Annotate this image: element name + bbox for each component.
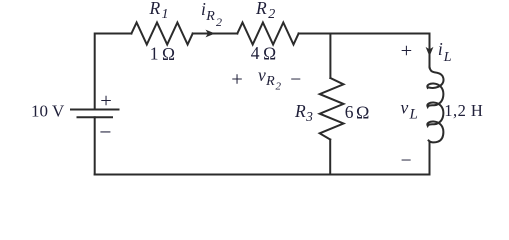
wire top-left from source to R1 [95, 34, 132, 109]
svg-text:Ω: Ω [162, 44, 175, 64]
wire R1 to R2 with current arrow [193, 33, 238, 35]
wire R3 branch top [329, 34, 331, 79]
svg-text:+: + [401, 40, 413, 62]
inductor L1 coil [427, 67, 443, 143]
resistor R3 [320, 78, 344, 140]
wire right branch top [429, 34, 431, 68]
svg-text:R1: R1 [149, 0, 169, 22]
svg-text:Ω: Ω [356, 102, 369, 122]
battery V1 bottom plate [78, 116, 113, 118]
wire bottom [95, 174, 430, 176]
svg-text:−: − [401, 150, 412, 171]
svg-text:10 V: 10 V [31, 102, 65, 121]
svg-text:R2: R2 [255, 0, 275, 22]
svg-text:1,2 H: 1,2 H [444, 101, 483, 120]
svg-text:iR2: iR2 [201, 0, 222, 29]
current arrowhead i_L [426, 47, 434, 57]
current arrowhead i_R2 [206, 30, 216, 38]
wire R3 branch bottom [329, 140, 331, 175]
wire R2 to top-right corner [299, 33, 430, 35]
battery V1 top plate [71, 109, 119, 111]
svg-text:−: − [290, 70, 301, 91]
svg-text:4: 4 [251, 43, 260, 63]
svg-text:−: − [99, 120, 111, 144]
wire right branch bottom [429, 142, 431, 175]
svg-text:vR2: vR2 [258, 65, 281, 93]
resistor R2 [237, 23, 298, 45]
svg-text:R3: R3 [294, 101, 313, 124]
svg-text:+: + [100, 90, 112, 112]
svg-text:Ω: Ω [263, 43, 276, 63]
svg-text:6: 6 [345, 102, 354, 122]
svg-text:1: 1 [150, 43, 159, 63]
svg-text:iL: iL [438, 39, 452, 65]
wire left below source [94, 117, 96, 174]
svg-text:+: + [231, 69, 243, 91]
svg-text:vL: vL [401, 98, 418, 123]
resistor R1 [131, 23, 192, 45]
